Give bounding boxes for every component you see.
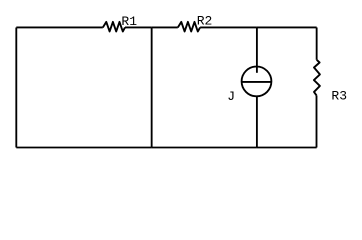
svg-text:R3: R3 bbox=[331, 88, 347, 103]
wire top: left corner to R1 bbox=[16, 26, 103, 28]
wire left branch bbox=[15, 27, 17, 147]
wire source branch: bottom lead bbox=[256, 96, 258, 148]
svg-text:J: J bbox=[227, 89, 235, 104]
resistor R2 bbox=[178, 22, 200, 32]
wire right branch: top lead to R3 bbox=[316, 27, 318, 59]
wire top: R1 to middle-branch junction bbox=[125, 26, 152, 28]
svg-text:R2: R2 bbox=[197, 14, 213, 29]
wire middle branch bbox=[151, 27, 153, 147]
current source J bbox=[241, 67, 272, 97]
wire bottom: middle junction to source-branch junction bbox=[152, 147, 257, 149]
resistor R3 bbox=[314, 60, 320, 96]
wire source branch: top lead into circle bbox=[256, 27, 258, 72]
wire bottom: junction to bottom-right corner bbox=[257, 147, 317, 149]
wire top: junction to top-right corner bbox=[257, 26, 317, 28]
wire right branch: R3 to bottom-right corner bbox=[316, 95, 318, 147]
wire bottom: left corner to middle-branch junction bbox=[16, 147, 151, 149]
wire top: junction to R2 bbox=[152, 26, 178, 28]
resistor R1 bbox=[103, 22, 125, 32]
wire top: R2 to source-branch junction bbox=[200, 26, 257, 28]
